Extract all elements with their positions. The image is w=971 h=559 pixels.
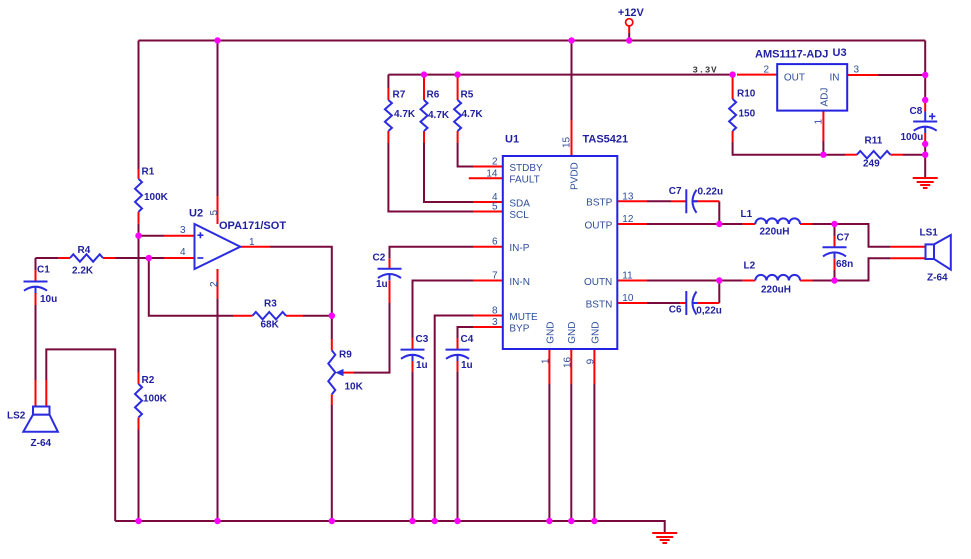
capacitor C6 bootstrap <box>685 291 687 315</box>
svg-text:220uH: 220uH <box>761 285 791 296</box>
speaker LS1 body <box>926 244 935 259</box>
svg-text:6: 6 <box>492 237 498 248</box>
svg-text:OUT: OUT <box>784 73 805 84</box>
pin lead op-amp pin2 <box>217 269 219 299</box>
capacitor C7 output filter 68n <box>823 246 847 248</box>
wire feedback from pin4 node down to R3 <box>149 258 233 316</box>
capacitor C3 <box>401 349 425 351</box>
svg-text:MUTE: MUTE <box>509 312 538 323</box>
wire top +12V bus <box>139 40 926 42</box>
wire right vertical below C8 to ground <box>924 142 926 178</box>
svg-text:L1: L1 <box>741 209 753 220</box>
svg-text:L2: L2 <box>744 261 756 272</box>
pin lead C3 bottom <box>412 361 414 371</box>
wire GND pin1 to ground bus <box>548 384 550 521</box>
svg-text:2.2K: 2.2K <box>72 266 94 277</box>
wire C4 bottom to ground bus <box>457 371 459 521</box>
svg-text:R5: R5 <box>461 90 474 101</box>
node top bus / +12V <box>626 37 632 43</box>
wire C7 68n upper dark <box>834 224 836 236</box>
ground symbol right <box>913 178 938 188</box>
pin lead R4 right <box>103 257 116 259</box>
svg-text:C4: C4 <box>461 334 474 345</box>
svg-text:13: 13 <box>622 191 634 202</box>
pin lead U1 GND pin9 <box>593 349 595 384</box>
svg-text:10u: 10u <box>40 294 57 305</box>
wire C1 to LS2 left <box>35 305 37 380</box>
pin lead R10 bottom <box>732 131 734 142</box>
svg-text:GND: GND <box>567 322 578 344</box>
wire C7 68n lower dark <box>834 270 836 281</box>
wire C2 top corner to IN-P <box>390 247 474 259</box>
svg-text:GND: GND <box>545 322 556 344</box>
pin lead U1 MUTE pin8 <box>473 315 503 317</box>
resistor R5 <box>454 100 461 131</box>
node ground bus / GND9 <box>591 518 597 524</box>
wire C1 branch upper <box>35 258 37 270</box>
svg-text:IN-N: IN-N <box>509 277 530 288</box>
svg-text:1: 1 <box>249 237 255 248</box>
wire R4 to op-amp pin4 <box>36 257 165 259</box>
node ground bus / R9 <box>329 518 335 524</box>
+12V power terminal circle <box>626 19 633 26</box>
pin lead C8 top <box>924 101 926 112</box>
wire GND pin16 to ground bus <box>570 384 572 521</box>
svg-text:1: 1 <box>541 358 552 364</box>
svg-text:Z-64: Z-64 <box>31 438 52 449</box>
svg-text:2: 2 <box>209 281 220 287</box>
svg-text:SCL: SCL <box>509 210 529 221</box>
pin lead U1 BSTN pin10 <box>617 302 647 304</box>
pin lead U1 GND pin16 <box>570 349 572 384</box>
pin lead L2 left <box>743 280 756 282</box>
svg-text:AMS1117-ADJ: AMS1117-ADJ <box>755 49 828 61</box>
potentiometer R9 wiper arrow <box>335 369 343 376</box>
capacitor C4 <box>446 349 470 351</box>
svg-text:68n: 68n <box>836 259 853 270</box>
wire SCL to R7 bottom <box>388 143 473 212</box>
node L1 / C7 68n / LS1 <box>831 221 837 227</box>
pin lead R7 bottom <box>387 131 389 143</box>
svg-text:4.7K: 4.7K <box>462 109 484 120</box>
node ADJ / R10 bus <box>820 152 826 158</box>
pin lead R10 top <box>732 76 734 99</box>
svg-text:R1: R1 <box>142 167 155 178</box>
pin lead R4 left <box>59 257 70 259</box>
pin lead R2 top <box>138 373 140 384</box>
svg-text:R10: R10 <box>737 89 756 100</box>
wire C7 right corner down to OUTP <box>718 201 720 224</box>
wire BSTP C7 branch dark <box>647 200 671 202</box>
node right vertical / AMS IN <box>922 72 928 78</box>
capacitor C8 polarity plus sign <box>929 113 935 119</box>
svg-text:3.3V: 3.3V <box>693 66 718 76</box>
node ground bus / op-amp pin2 <box>214 518 220 524</box>
pin lead op-amp pin4 <box>164 257 195 259</box>
pin lead R6 top <box>423 76 425 100</box>
wire R11 right to right vertical <box>903 154 925 156</box>
pin lead U1 OUTN pin11 <box>617 280 647 282</box>
wire ground bus bottom <box>115 521 665 533</box>
wire LS2 right up and over to ground bus <box>46 349 115 521</box>
wire R10 bottom to ADJ bus <box>733 142 845 155</box>
wire R9 wiper to C2 bottom <box>354 303 390 373</box>
wire OUTN node to L2 <box>719 280 743 282</box>
capacitor C1 <box>24 281 48 283</box>
pin lead R2 bottom <box>138 417 140 429</box>
pin lead U1 GND pin1 <box>548 349 550 384</box>
resistor R1 <box>135 179 142 212</box>
pin lead U1 BSTP pin13 <box>617 200 647 202</box>
pin lead LS2 right <box>45 380 47 407</box>
svg-text:4: 4 <box>180 247 186 258</box>
wire op-amp pin3 input <box>139 235 165 237</box>
svg-text:7: 7 <box>492 271 498 282</box>
pin lead R6 bottom <box>423 131 425 143</box>
svg-text:BSTN: BSTN <box>586 299 613 310</box>
pin lead LS1 bottom <box>891 257 926 259</box>
wire SDA to R6 bottom <box>424 143 473 202</box>
svg-text:+12V: +12V <box>618 7 645 19</box>
inductor L2 <box>755 275 800 281</box>
node C6 / OUTN <box>716 277 722 283</box>
svg-text:OUTP: OUTP <box>585 220 613 231</box>
svg-text:11: 11 <box>622 271 633 282</box>
wire MUTE down to ground bus <box>435 316 473 522</box>
svg-text:IN-P: IN-P <box>509 243 529 254</box>
svg-text:220uH: 220uH <box>760 227 790 238</box>
pin lead R5 bottom <box>457 131 459 143</box>
pin lead 3.3V to AMS OUT pin2 <box>737 74 777 76</box>
pin lead R1 top <box>138 169 140 179</box>
svg-text:OUTN: OUTN <box>584 277 612 288</box>
svg-text:R4: R4 <box>78 245 91 256</box>
node ground bus / C4 <box>454 518 460 524</box>
capacitor C8 <box>924 112 926 122</box>
op-amp U2 plus input mark <box>197 232 203 238</box>
svg-text:U3: U3 <box>833 47 847 59</box>
node C7 / OUTP <box>716 221 722 227</box>
capacitor C2 <box>378 268 402 270</box>
resistor R10 <box>729 99 736 131</box>
svg-text:68K: 68K <box>261 320 280 331</box>
node 3.3V / R10 <box>729 71 735 77</box>
pin lead LS1 top <box>891 246 926 248</box>
pin lead R3 left <box>233 315 253 317</box>
svg-text:R3: R3 <box>264 299 277 310</box>
pin lead C1 bottom <box>35 293 37 306</box>
pin lead C1 top <box>35 270 37 282</box>
pin lead C2 bottom <box>389 280 391 303</box>
pin lead R9 bottom <box>331 394 333 405</box>
node C8 bottom <box>922 141 928 147</box>
svg-text:LS2: LS2 <box>7 411 26 422</box>
svg-text:4.7K: 4.7K <box>428 110 450 121</box>
speaker LS2 body <box>33 407 50 415</box>
svg-text:150: 150 <box>739 109 756 120</box>
regulator U3 AMS1117 body <box>777 64 847 111</box>
svg-text:PVDD: PVDD <box>569 162 580 190</box>
svg-text:U1: U1 <box>505 134 519 146</box>
wire C6 right corner up to OUTN node <box>718 281 720 304</box>
svg-text:3: 3 <box>180 225 186 236</box>
op-amp U2 minus input mark <box>197 257 203 259</box>
wire OUTN to C6 node <box>647 280 719 282</box>
node right vertical / C8 top <box>922 97 928 103</box>
svg-text:Z-64: Z-64 <box>927 273 948 284</box>
svg-text:100u: 100u <box>901 132 924 143</box>
resistor R6 <box>421 100 428 131</box>
pin lead C3 top <box>412 338 414 350</box>
svg-text:FAULT: FAULT <box>509 175 539 186</box>
node L2 / C7 68n / LS1 <box>831 277 837 283</box>
svg-text:C3: C3 <box>416 334 429 345</box>
node top bus / op-amp branch <box>214 37 220 43</box>
pin lead U1 PVDD pin15 <box>571 120 573 156</box>
wire left vertical below R2 to ground bus <box>138 430 140 522</box>
pin lead U1 IN-N pin7 <box>473 280 503 282</box>
pin lead C7 left <box>671 200 686 202</box>
wire AMS1117 IN to right vertical <box>878 74 925 76</box>
svg-text:C8: C8 <box>910 106 923 117</box>
svg-text:R6: R6 <box>427 90 440 101</box>
pin lead C7 right <box>693 200 720 202</box>
svg-text:10K: 10K <box>345 382 364 393</box>
svg-text:C2: C2 <box>373 253 386 264</box>
pin lead C2 top <box>389 259 391 269</box>
svg-text:14: 14 <box>486 168 498 179</box>
svg-text:BYP: BYP <box>509 323 529 334</box>
resistor R7 <box>385 100 392 131</box>
svg-text:9: 9 <box>586 358 597 364</box>
pin lead AMS IN pin3 <box>847 74 878 76</box>
svg-text:100K: 100K <box>144 192 169 203</box>
node ground bus / GND16 <box>568 518 574 524</box>
wire OUTP to L1 <box>647 223 743 225</box>
inductor L1 <box>755 218 800 224</box>
pin lead LS2 left <box>35 380 37 407</box>
potentiometer R9 <box>328 350 335 394</box>
node ground bus / R2 <box>135 518 141 524</box>
node op-amp pin4 / feedback <box>146 255 152 261</box>
svg-text:5: 5 <box>209 210 220 216</box>
wire IN-N to C3 top <box>413 281 474 339</box>
svg-text:2: 2 <box>492 157 498 168</box>
svg-text:10: 10 <box>622 293 634 304</box>
wire GND pin9 to ground bus <box>593 384 595 521</box>
wire mid vertical op-amp pin2 to ground bus <box>217 299 219 521</box>
node ground bus / C3 <box>409 518 415 524</box>
svg-text:1u: 1u <box>461 360 473 371</box>
wire R3 right to output node <box>303 315 332 317</box>
svg-text:C7: C7 <box>669 186 682 197</box>
svg-text:1: 1 <box>814 119 825 125</box>
svg-text:1u: 1u <box>416 360 428 371</box>
svg-text:U2: U2 <box>189 208 203 220</box>
svg-text:LS1: LS1 <box>920 228 939 239</box>
svg-text:100K: 100K <box>143 394 168 405</box>
wire left vertical between R1 and R2 <box>138 224 140 373</box>
svg-text:R11: R11 <box>865 136 883 147</box>
pin lead AMS ADJ pin1 <box>822 111 824 141</box>
node 3.3V / R5 <box>454 71 460 77</box>
speaker LS2 horn <box>23 415 58 432</box>
pin lead R11 right <box>890 154 903 156</box>
pin lead C6 left <box>680 302 686 304</box>
pin lead C6 right <box>693 302 720 304</box>
IC U1 TAS5421 body <box>503 156 618 349</box>
wire R9 bottom to ground bus <box>331 405 333 521</box>
wire left vertical R1/R2 branch upper <box>138 41 140 170</box>
node right vertical / R11 <box>922 152 928 158</box>
pin lead R3 right <box>286 315 303 317</box>
pin lead R9 top <box>331 339 333 350</box>
pin lead U1 SDA pin4 <box>473 201 503 203</box>
svg-text:TAS5421: TAS5421 <box>583 134 629 146</box>
wire BSTN C6 branch dark <box>647 302 680 304</box>
pin lead U1 IN-P pin6 <box>473 246 503 248</box>
svg-text:IN: IN <box>830 73 840 84</box>
svg-text:GND: GND <box>590 322 601 344</box>
pin lead C4 top <box>457 338 459 350</box>
pin lead C7 68n top <box>834 236 836 247</box>
svg-text:R2: R2 <box>142 375 155 386</box>
resistor R2 <box>135 384 142 418</box>
svg-text:3: 3 <box>492 317 498 328</box>
wire L2 to OUTN output node <box>813 280 835 282</box>
node op-amp pin3 / R1 R2 <box>135 233 141 239</box>
pin lead L1 right <box>800 223 812 225</box>
wire PVDD pin15 to top bus <box>571 41 573 121</box>
resistor R4 <box>70 254 103 261</box>
pin lead R1 bottom <box>138 212 140 224</box>
svg-text:STDBY: STDBY <box>509 163 543 174</box>
svg-text:R7: R7 <box>393 90 406 101</box>
svg-text:BSTP: BSTP <box>586 198 612 209</box>
speaker LS1 horn <box>934 235 951 270</box>
pin lead op-amp pin3 <box>164 235 195 237</box>
wire 3.3V rail <box>388 74 732 76</box>
pin lead U1 OUTP pin12 <box>617 223 647 225</box>
wire op-amp output down to R3/R9 node <box>270 247 332 339</box>
op-amp U2 triangle <box>195 224 241 269</box>
pin lead C4 bottom <box>457 361 459 371</box>
svg-text:12: 12 <box>622 214 634 225</box>
wire BYP to C4 top <box>458 327 474 338</box>
wire OUTP node to LS1 top <box>835 224 891 247</box>
svg-text:0.22u: 0.22u <box>698 187 724 198</box>
svg-text:1u: 1u <box>376 279 388 290</box>
pin lead C8 bottom <box>924 133 926 142</box>
capacitor C7 bootstrap <box>685 189 687 213</box>
node R3 / R9 / output <box>329 313 335 319</box>
svg-text:16: 16 <box>563 356 574 368</box>
resistor R3 <box>253 312 287 319</box>
wire right vertical from top bus to C8 <box>924 41 926 102</box>
node ground bus / MUTE <box>432 518 438 524</box>
pin lead R9 wiper <box>343 372 354 374</box>
pin lead L1 left <box>743 223 756 225</box>
svg-text:R9: R9 <box>339 350 352 361</box>
wire R7 top corner <box>387 75 389 88</box>
pin lead op-amp pin5 <box>217 196 219 224</box>
svg-text:5: 5 <box>492 202 498 213</box>
wire mid vertical op-amp pin5 from top bus <box>217 41 219 197</box>
pin lead R5 top <box>457 77 459 100</box>
wire C3 bottom to ground bus <box>412 371 414 521</box>
pin lead R11 left <box>845 154 857 156</box>
wire OUTN node to LS1 bottom <box>835 258 891 280</box>
pin lead U1 BYP pin3 <box>473 326 503 328</box>
svg-text:249: 249 <box>863 159 880 170</box>
svg-text:SDA: SDA <box>509 198 530 209</box>
pin lead C7 68n bottom <box>834 259 836 270</box>
svg-text:C7: C7 <box>837 233 850 244</box>
pin lead L2 right <box>800 280 812 282</box>
pin lead op-amp pin1 output <box>240 246 270 248</box>
svg-text:3: 3 <box>854 65 860 76</box>
svg-text:4.7K: 4.7K <box>394 109 416 120</box>
pin lead U1 SCL pin5 <box>473 211 503 213</box>
pin lead U1 STDBY pin2 <box>473 166 503 168</box>
node 3.3V / R6 <box>421 71 427 77</box>
svg-text:8: 8 <box>492 306 498 317</box>
pin lead U1 FAULT pin14 <box>469 177 503 179</box>
resistor R11 <box>857 151 891 158</box>
svg-text:OPA171/SOT: OPA171/SOT <box>219 220 286 232</box>
wire +12V stub lower <box>628 33 630 41</box>
ground symbol bottom <box>652 533 677 543</box>
wire ADJ pin1 lower <box>822 141 824 155</box>
svg-text:C6: C6 <box>669 305 682 316</box>
svg-text:0,22u: 0,22u <box>696 306 722 317</box>
svg-text:ADJ: ADJ <box>820 88 831 107</box>
svg-text:15: 15 <box>561 136 572 148</box>
pin lead R7 top <box>387 88 389 100</box>
node ground bus / GND1 <box>546 518 552 524</box>
svg-text:2: 2 <box>763 65 769 76</box>
node top bus / PVDD <box>568 37 574 43</box>
pin lead +12V <box>628 26 630 33</box>
wire STDBY to R5 bottom <box>458 143 473 167</box>
wire L1 to output node <box>813 223 835 225</box>
svg-text:C1: C1 <box>37 265 50 276</box>
